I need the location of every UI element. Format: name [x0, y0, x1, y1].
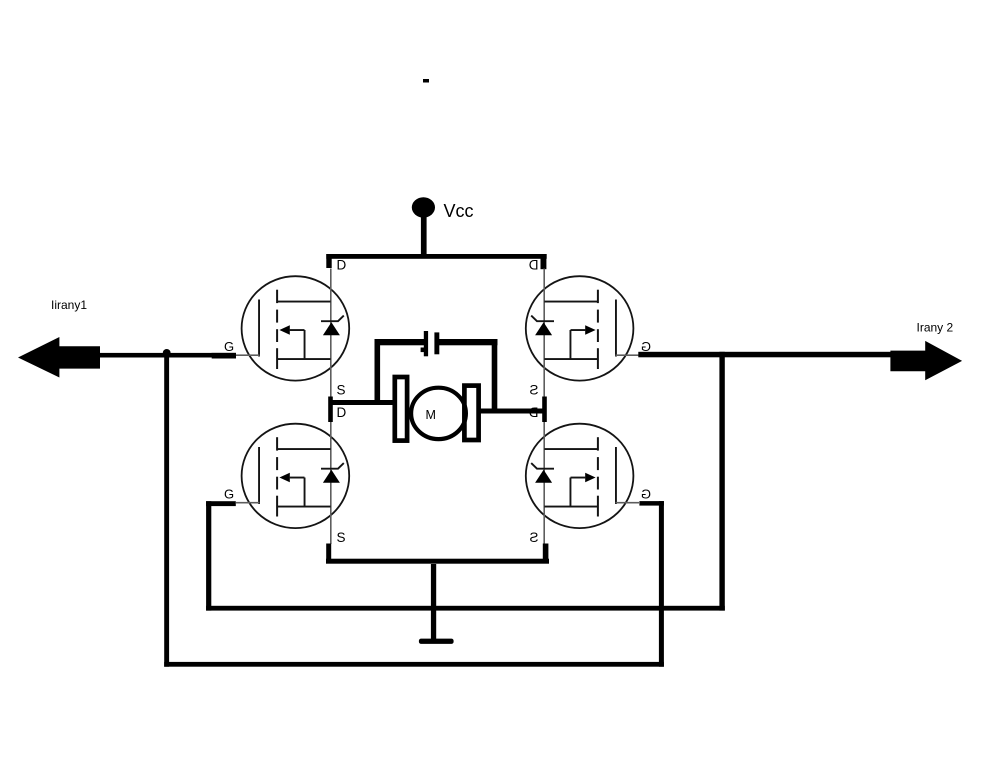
dash mark top center [423, 79, 429, 83]
junction dot net Iirany1 [163, 349, 171, 357]
capacitor C1 left branch wire [375, 339, 381, 405]
nmos Q3 lower-left [224, 405, 349, 545]
svg-text:Iirany1: Iirany1 [51, 298, 87, 312]
top rail wire [326, 254, 546, 259]
net Iirany1 right riser wire [659, 501, 664, 667]
motor M circle [411, 388, 466, 439]
source tick lower-left [326, 544, 331, 561]
ground stem wire [431, 564, 436, 642]
rail right tick [541, 254, 547, 269]
wire motor left [331, 400, 395, 405]
ground bar [419, 639, 454, 644]
Q1 gate stub wire [212, 353, 236, 359]
rail left tick [326, 254, 331, 268]
node tick left middle [328, 397, 333, 423]
Q3 gate stub wire [206, 501, 236, 506]
capacitor C1 right wire [439, 339, 498, 345]
net Iirany1 left vertical wire [164, 353, 169, 667]
svg-text:Irany 2: Irany 2 [917, 320, 954, 334]
net Irany2 riser wire [719, 352, 724, 611]
nmos Q2 upper-right (mirrored) [526, 258, 651, 398]
capacitor C1 plate nub [421, 348, 425, 353]
net Iirany1 wire to Q1 gate [100, 353, 212, 358]
wire motor right [480, 409, 545, 414]
net Irany2 wire to Q2 gate [638, 352, 890, 358]
capacitor C1 right plate [434, 332, 439, 354]
net Irany2 bottom wire [206, 606, 725, 611]
capacitor C1 right branch wire [492, 339, 498, 414]
capacitor C1 left plate [424, 331, 428, 356]
capacitor C1 left wire [375, 339, 425, 345]
svg-text:M: M [426, 408, 436, 422]
svg-text:Vcc: Vcc [444, 201, 474, 221]
net Irany2 left riser wire [206, 501, 211, 610]
Q4 gate stub wire [639, 501, 664, 506]
nmos Q4 lower-right (mirrored) [526, 405, 651, 545]
Vcc stem wire [421, 215, 427, 258]
motor brush right [464, 386, 478, 440]
motor brush left [395, 377, 407, 441]
Vcc terminal dot [412, 197, 435, 217]
nmos Q1 upper-left [224, 258, 349, 398]
node tick right middle [542, 397, 547, 423]
net Iirany1 bottom wire [164, 662, 664, 667]
source tick lower-right [543, 544, 549, 561]
arrow Irany2 [890, 341, 962, 380]
source rail wire [326, 559, 549, 564]
arrow Iirany1 [18, 337, 100, 378]
